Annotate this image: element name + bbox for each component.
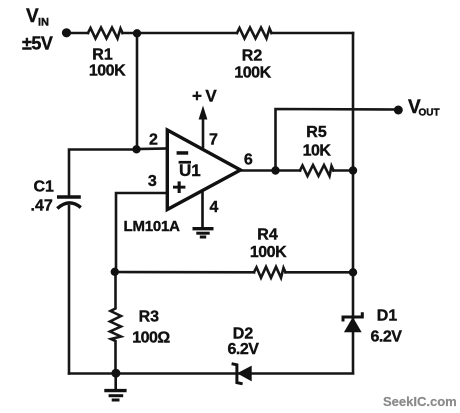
- resistor R5: [300, 165, 334, 176]
- +V supply arrow: [199, 106, 208, 149]
- wire R5 to right rail: [334, 169, 354, 172]
- svg-text:3: 3: [148, 173, 157, 190]
- op-amp plus input polarity mark: [173, 181, 185, 193]
- wire op-amp output lead: [240, 169, 300, 172]
- svg-text:2: 2: [149, 132, 158, 149]
- label VOUT: [408, 97, 440, 119]
- svg-text:+V: +V: [192, 87, 220, 106]
- svg-text:R2: R2: [242, 48, 263, 65]
- svg-text:7: 7: [209, 132, 218, 149]
- svg-text:.47: .47: [31, 198, 53, 215]
- junction R5 right on right rail: [349, 166, 357, 174]
- svg-text:±5V: ±5V: [22, 34, 53, 54]
- svg-text:R1: R1: [92, 47, 113, 64]
- ground under R3 node: [104, 374, 126, 401]
- zener diode D2: [232, 364, 252, 384]
- wire left C1 branch lower: [68, 206, 71, 374]
- svg-text:LM101A: LM101A: [124, 218, 181, 235]
- wire top rail middle (R1 to R2): [123, 32, 238, 35]
- capacitor C1: [57, 197, 81, 209]
- wire left C1 branch upper: [69, 150, 137, 196]
- svg-text:R4: R4: [257, 227, 278, 244]
- junction R4 left node: [111, 268, 119, 276]
- svg-text:10K: 10K: [303, 143, 332, 160]
- op-amp U1 triangle: [167, 130, 240, 210]
- svg-text:100Ω: 100Ω: [132, 330, 170, 347]
- op-amp minus input polarity mark: [177, 151, 189, 155]
- wire bottom rail: [69, 372, 353, 375]
- junction output node at R5 left: [271, 166, 279, 174]
- junction R1 output / feedback node: [133, 29, 141, 37]
- node VOUT terminal dot: [394, 106, 403, 115]
- resistor R1: [88, 28, 123, 39]
- resistor R2: [237, 28, 272, 39]
- svg-text:6.2V: 6.2V: [228, 341, 260, 358]
- op-amp U1 overbar: [179, 161, 191, 164]
- svg-text:SeekIC.com: SeekIC.com: [383, 394, 457, 409]
- zener diode D1: [343, 312, 362, 332]
- wire R4 rail left: [116, 271, 255, 274]
- ground under op-amp pin 4: [193, 191, 214, 238]
- resistor R4: [254, 267, 286, 278]
- svg-text:D2: D2: [233, 326, 254, 343]
- resistor R3 vertical: [110, 272, 121, 374]
- svg-text:6: 6: [244, 152, 253, 169]
- wire pin 3 lead and branch down to R4 rail: [116, 193, 168, 272]
- svg-text:R3: R3: [139, 309, 160, 326]
- wire pin 2 lead: [137, 147, 168, 150]
- svg-text:D1: D1: [377, 308, 398, 325]
- svg-text:100K: 100K: [234, 65, 271, 82]
- label VIN: [26, 6, 49, 29]
- svg-text:C1: C1: [34, 179, 55, 196]
- svg-text:100K: 100K: [89, 63, 126, 80]
- svg-text:6.2V: 6.2V: [371, 329, 403, 346]
- svg-text:OUT: OUT: [419, 108, 440, 119]
- wire top rail left (VIN node to R1): [67, 32, 88, 35]
- junction R4 right on right rail: [349, 268, 357, 276]
- svg-text:100K: 100K: [250, 244, 287, 261]
- wire feedback riser to VOUT line: [276, 109, 399, 171]
- wire R4 rail right: [286, 271, 354, 274]
- svg-text:4: 4: [210, 199, 219, 216]
- junction R3 bottom ground node: [111, 369, 120, 378]
- svg-text:IN: IN: [38, 17, 49, 29]
- wire right rail vertical: [352, 33, 355, 373]
- svg-text:R5: R5: [306, 124, 327, 141]
- junction pin2 summing node: [132, 145, 140, 153]
- wire from R1 junction down to pin2 node: [136, 33, 139, 150]
- node VIN input terminal dot: [62, 28, 71, 37]
- wire top rail right (R2 to top-right corner): [272, 32, 354, 35]
- svg-text:U1: U1: [179, 161, 201, 180]
